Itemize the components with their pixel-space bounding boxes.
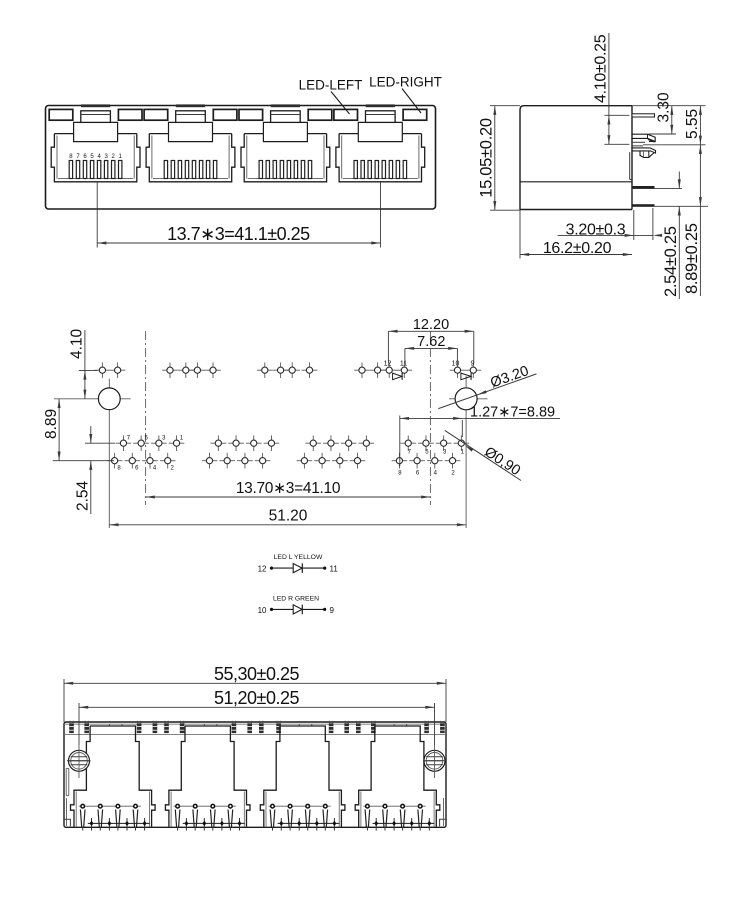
svg-text:LED-RIGHT: LED-RIGHT [369, 75, 442, 90]
svg-text:5.55: 5.55 [684, 109, 701, 139]
front view port 2 [176, 104, 205, 107]
ext body left [63, 679, 65, 722]
dimension 15.05±0.20 [494, 106, 496, 211]
svg-text:9: 9 [330, 606, 335, 615]
mounting hole right Ø3.20 [449, 398, 488, 400]
top strip line 2 [64, 734, 446, 736]
svg-text:2.54±0.25: 2.54±0.25 [662, 226, 680, 297]
dimension 51.20 [109, 524, 466, 526]
ext body right [445, 679, 447, 722]
right edge inner line [443, 798, 445, 826]
side latch slot [631, 141, 645, 143]
dimension 55,30±0.25 [64, 682, 446, 684]
svg-text:12.20: 12.20 [413, 317, 449, 333]
dimension 1.27*7=8.89 [400, 417, 463, 419]
bottom view port 4 cavity [375, 726, 440, 827]
dimension 2.54±0.25 side [678, 172, 680, 189]
svg-text:3.30: 3.30 [656, 92, 673, 123]
side view internal divider [520, 181, 632, 183]
ext pad9 [473, 331, 475, 363]
bottom view body [64, 722, 446, 827]
bottom view mounting post [69, 750, 90, 771]
svg-text:51,20±0.25: 51,20±0.25 [214, 688, 299, 708]
ext line pin root [633, 210, 635, 240]
svg-text:8.89±0.25: 8.89±0.25 [683, 223, 701, 294]
port 2 solder tails [183, 822, 245, 824]
ext pad11 [404, 348, 406, 363]
diode LED-L [301, 563, 303, 573]
svg-text:11: 11 [400, 361, 407, 368]
wire LED L anode [272, 567, 294, 569]
ext pad8 port4 [399, 416, 401, 467]
ext pad1 port4 [461, 420, 463, 437]
LED pin slots [69, 721, 74, 733]
wire LED R anode [272, 608, 294, 610]
front view port 3 [271, 104, 300, 107]
ext pad10 [456, 348, 458, 363]
port 1 LED-left window [49, 109, 73, 120]
front view port 1 [81, 104, 110, 107]
dimension 8.89±0.25 side [699, 145, 701, 207]
svg-text:13.7∗3=41.1±0.25: 13.7∗3=41.1±0.25 [167, 224, 310, 244]
ext line latch mid right [643, 144, 706, 146]
ext upper pad row [85, 442, 115, 444]
port 3 solder tails [278, 822, 340, 824]
wire LED L cathode [302, 567, 324, 569]
ext top for 15.05 [490, 105, 520, 107]
svg-text:2.54: 2.54 [75, 480, 92, 511]
svg-text:12: 12 [258, 565, 267, 574]
bottom view port 2 cavity [185, 726, 250, 827]
svg-text:10: 10 [258, 606, 267, 615]
port 4 contact posts [364, 805, 426, 807]
node 10 [323, 608, 326, 611]
ext post left [78, 703, 80, 745]
dim line 3.30 [671, 106, 673, 134]
port 1 contacts [69, 161, 72, 179]
port 3 LED-right window [308, 109, 332, 120]
ext post right [434, 703, 436, 745]
side edge step [629, 152, 631, 179]
ext line bottom pin right [640, 205, 708, 207]
port 1 LED-right window [118, 109, 142, 120]
port 4 LED-right window [403, 109, 427, 120]
svg-text:10: 10 [452, 361, 460, 368]
leader LED-RIGHT [402, 89, 421, 114]
svg-text:11: 11 [330, 565, 339, 574]
port 2 contacts [164, 161, 167, 179]
svg-text:7.62: 7.62 [417, 334, 445, 350]
port 1 pads [116, 435, 132, 451]
centerline port4 [429, 331, 431, 505]
LED diode symbol on pad row [393, 373, 402, 380]
ext line body left bottom [519, 210, 521, 259]
svg-text:4.10: 4.10 [69, 328, 86, 359]
svg-text:8.89: 8.89 [43, 409, 60, 439]
bottom-left notch [64, 819, 70, 826]
ext line port4 center [380, 182, 382, 248]
top strip line 1 [64, 723, 446, 725]
side latch hook lower [631, 148, 655, 153]
bottom view mounting post [424, 750, 445, 771]
port 4 pads [400, 435, 416, 451]
ext pad12 [387, 331, 389, 363]
ext line body top right [632, 105, 706, 107]
node 9 [293, 605, 302, 614]
port 3 contacts [259, 161, 262, 179]
port 1 contact posts [79, 805, 141, 807]
port 3 LED-left window [239, 109, 263, 120]
LED diode symbol on pad row [461, 373, 471, 380]
svg-text:12: 12 [384, 361, 392, 368]
left edge inner line [66, 798, 68, 826]
front view port 4 [366, 104, 395, 107]
svg-text:4.10±0.25: 4.10±0.25 [593, 34, 610, 103]
node 11 [293, 564, 302, 573]
bottom view port 1 cavity [90, 726, 155, 827]
port 2 pads [211, 435, 227, 451]
wire LED R cathode [302, 608, 324, 610]
dimension 16.2±0.20 [520, 254, 632, 256]
port 4 LED-left window [334, 109, 358, 120]
side view body right edge [631, 106, 633, 210]
ext bottom for 15.05 [490, 209, 520, 211]
port 4 contacts [354, 161, 357, 179]
side top snap pin [632, 114, 655, 117]
leader Ø0.90 [445, 430, 521, 480]
dimension 5.55 [699, 106, 701, 145]
port 1 solder tails [88, 822, 150, 824]
ext tick for 4.10 top [604, 114, 629, 116]
svg-text:51.20: 51.20 [269, 508, 308, 525]
port 2 contact posts [174, 805, 236, 807]
svg-text:15.05±0.20: 15.05±0.20 [478, 118, 496, 198]
dim line 4.10±0.25 [608, 33, 610, 115]
side middle pin [632, 204, 655, 207]
ext top pad row left [79, 369, 98, 371]
dimension 13.7*3=41.1±0.25 [97, 242, 380, 244]
diode LED-R [301, 605, 303, 615]
mounting hole left Ø3.20 [54, 398, 131, 400]
port 2 LED-right window [213, 109, 237, 120]
dimension 7.62 [405, 347, 458, 349]
port 4 solder tails [373, 822, 435, 824]
dimension 2.54 left [90, 426, 92, 443]
ext line port1 center [96, 182, 98, 248]
bottom-right notch [440, 819, 446, 826]
left edge slot [65, 769, 67, 796]
svg-text:1.27∗7=8.89: 1.27∗7=8.89 [470, 405, 555, 421]
leader Ø3.20 [438, 374, 536, 409]
svg-text:LED R GREEN: LED R GREEN [273, 596, 319, 603]
svg-text:3.20±0.3: 3.20±0.3 [566, 221, 626, 238]
side latch hook upper [631, 134, 655, 141]
bottom view port 3 cavity [280, 726, 345, 827]
port 3 pads [305, 435, 321, 451]
svg-text:55,30±0.25: 55,30±0.25 [214, 664, 299, 684]
ext line middle pin [632, 188, 682, 190]
node 12 [323, 567, 326, 570]
dimension 13.70*3=41.10 [146, 496, 431, 498]
ext line pin tip [652, 208, 654, 240]
svg-text:LED L YELLOW: LED L YELLOW [274, 554, 323, 561]
dimension 12.20 [388, 330, 473, 332]
dimension 51,20±0.25 [79, 706, 435, 708]
dimension 3.20±0.3 [558, 234, 634, 236]
port 2 LED-left window [144, 109, 168, 120]
side view body [520, 106, 632, 210]
centerline port1 [145, 331, 147, 505]
ext tick for 3.30 [649, 133, 677, 135]
svg-text:16.2±0.20: 16.2±0.20 [543, 240, 612, 257]
LED pin pads top row [95, 362, 111, 378]
ext lower pad row [53, 460, 114, 462]
front view: 4-port RJ45 housing [46, 106, 436, 210]
port 3 contact posts [269, 805, 331, 807]
svg-text:LED-LEFT: LED-LEFT [299, 78, 363, 93]
dim line 4.10 [84, 330, 86, 370]
ext tick for 4.10 bottom [604, 143, 629, 145]
svg-text:13.70∗3=41.10: 13.70∗3=41.10 [236, 480, 341, 497]
dimension 8.89 left [58, 399, 60, 461]
leader LED-LEFT [331, 92, 350, 115]
